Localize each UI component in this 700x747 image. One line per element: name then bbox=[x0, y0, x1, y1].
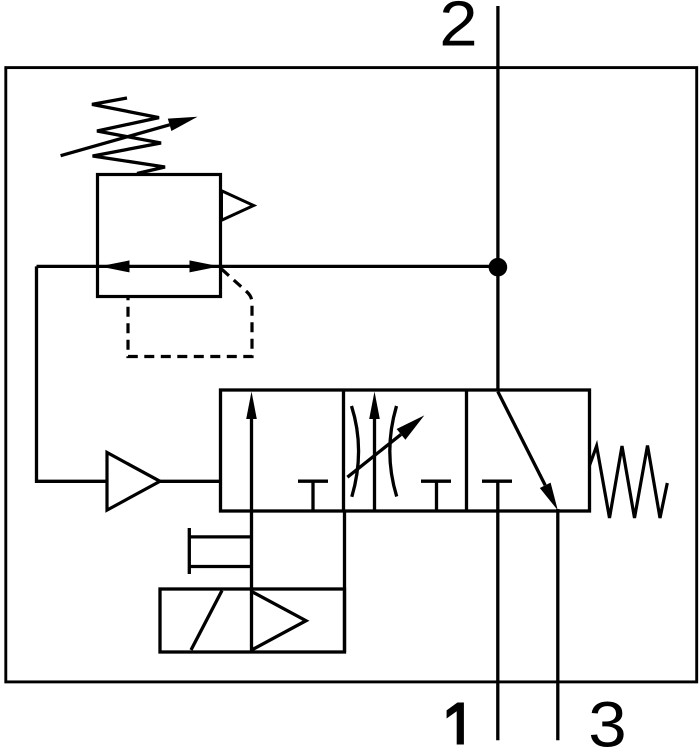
wire left vertical pilot feed bbox=[37, 266, 108, 481]
valve return spring bbox=[590, 446, 668, 519]
wire regulator output line (horizontal to node) bbox=[37, 265, 498, 268]
valve middle cell throttle arrow bbox=[347, 434, 401, 477]
svg-text:3: 3 bbox=[588, 690, 626, 747]
valve left cell blocked port T bbox=[298, 481, 328, 511]
port 1 label bbox=[447, 703, 464, 745]
solenoid coil diagonal bbox=[191, 591, 222, 651]
pressure regulator body bbox=[98, 175, 221, 297]
wire valve to solenoid divider bbox=[250, 511, 253, 652]
wire valve to solenoid right edge bbox=[343, 511, 346, 652]
regulator pilot dashed line bbox=[128, 269, 252, 357]
pilot amplifier triangle bbox=[107, 453, 160, 511]
wire pilot to valve bbox=[160, 480, 221, 483]
manual override push button bbox=[189, 528, 251, 574]
valve middle cell throttle arcs bbox=[352, 406, 397, 497]
port 3 label bbox=[588, 690, 626, 747]
valve middle cell blocked port T bbox=[421, 481, 451, 511]
port 2 label bbox=[439, 0, 477, 60]
regulator adjustment spring bbox=[92, 98, 165, 174]
regulator relief vent triangle bbox=[222, 191, 254, 221]
svg-text:2: 2 bbox=[439, 0, 477, 60]
valve body bbox=[221, 390, 590, 511]
valve left cell flow arrow bbox=[250, 416, 253, 511]
regulator flow arrowheads bbox=[100, 260, 130, 272]
wire port-2 vertical line bbox=[496, 6, 499, 390]
valve middle cell flow arrow bbox=[373, 416, 376, 511]
valve right cell flow path 2 to 3 bbox=[498, 392, 545, 486]
wire port 1 line bbox=[496, 481, 499, 740]
solenoid box bbox=[160, 589, 345, 652]
valve right cell blocked port T bbox=[482, 480, 512, 483]
node junction on port-2 line bbox=[489, 258, 508, 277]
regulator adjustment arrow bbox=[61, 125, 170, 156]
solenoid pilot triangle bbox=[253, 592, 307, 650]
wire port 3 line bbox=[556, 509, 559, 740]
